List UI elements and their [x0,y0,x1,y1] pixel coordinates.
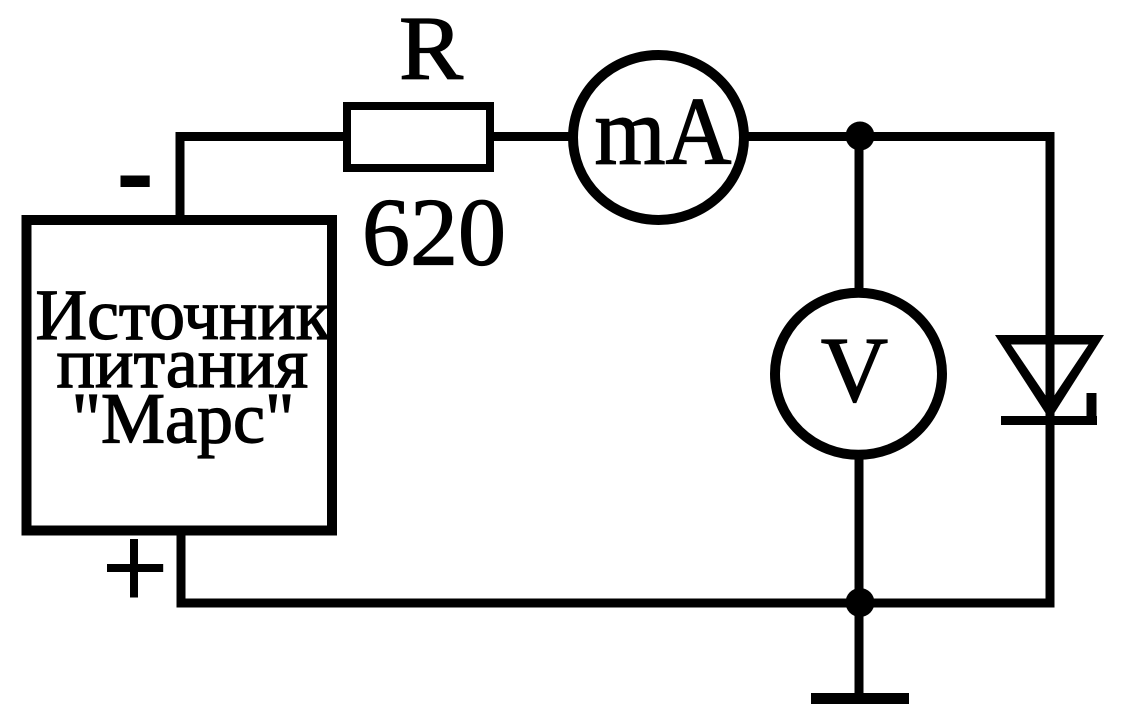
plus terminal label [107,539,163,598]
voltmeter U2 circle [775,293,942,455]
power source label "Источник питания Марс" [36,275,332,459]
wire: voltmeter down to bottom wire [855,456,864,603]
ground stem [855,603,864,694]
svg-text:V: V [821,319,888,422]
node A junction dot (top) [846,122,875,151]
wire through diode triangle [1046,340,1055,430]
resistor R1 body [347,106,490,168]
svg-text:620: 620 [362,179,506,286]
ground bar [811,693,909,704]
milliammeter U1 circle [573,55,744,220]
wire: bottom rail [177,599,1055,608]
diode D1 cathode bend [1087,393,1097,425]
wire: milliammeter to top-right corner and down to diode [747,137,1050,431]
wire: resistor to milliammeter [494,132,572,141]
svg-text:mA: mA [595,78,732,185]
svg-text:R: R [399,0,463,99]
svg-text:"Марс": "Марс" [72,379,295,459]
wire: diode down to bottom-right corner [1046,424,1055,603]
power source box [27,220,333,531]
wire: junction down to voltmeter [855,137,864,293]
diode D1 cathode bar [1001,416,1097,425]
minus terminal label [121,176,150,188]
wire: box top terminal up and right to resistor [180,137,343,217]
wire: box bottom terminal down to bottom rail [177,530,186,603]
node B junction dot (bottom) [846,588,875,617]
diode D1 triangle [995,335,1104,420]
